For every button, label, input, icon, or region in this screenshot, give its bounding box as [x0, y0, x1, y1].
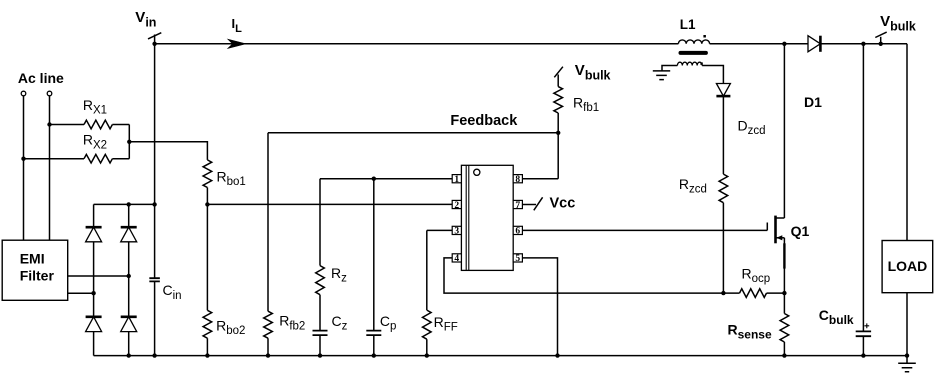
wire Rfb1 top stub — [557, 75, 559, 87]
resistor Rfb1 — [554, 87, 563, 113]
svg-text:LOAD: LOAD — [888, 258, 928, 274]
junction Q1 source at Rocp node — [782, 291, 786, 295]
label Rfb1 — [573, 95, 599, 115]
label Cp — [380, 313, 397, 333]
wire pin 4 to Rocp node — [444, 258, 740, 293]
label Filter — [20, 267, 55, 283]
wire L1 secondary to ground — [662, 66, 677, 71]
resistor Rsense — [780, 314, 789, 343]
pin 5 number — [515, 254, 520, 264]
wire Q1 gate tick — [766, 223, 768, 231]
label Cin — [163, 282, 182, 302]
wire bridge left leg upper — [93, 204, 95, 227]
label Rbo1 — [217, 168, 246, 188]
pin 2 square — [452, 200, 461, 208]
label IL — [232, 16, 243, 35]
junction RFF at ground rail — [425, 353, 429, 357]
pin 8 number — [515, 175, 520, 185]
junction bridge top right leg — [127, 202, 131, 206]
junction Cbulk at ground rail — [861, 353, 865, 357]
wire pin1 to Rz top — [320, 178, 452, 180]
wire L1 secondary to Dzcd — [702, 66, 723, 84]
wire RX2 left lead — [24, 158, 85, 160]
wire Rz top lead — [319, 179, 321, 266]
slash Vbulk tap marker — [554, 67, 563, 78]
wire bridge right leg upper — [128, 204, 130, 227]
wire right column to LOAD — [906, 44, 908, 241]
pin 1 square — [452, 175, 461, 183]
pin 7 square — [513, 200, 522, 208]
pin 3 square — [452, 226, 461, 234]
wire Cp top lead — [373, 179, 375, 331]
label D1 — [804, 94, 822, 110]
terminal Ac line right — [47, 91, 52, 96]
wire Vbulk stub — [880, 37, 882, 44]
inductor L1 label — [680, 17, 696, 32]
Cbulk polarity plus — [864, 323, 869, 328]
junction Vbulk at top rail — [879, 42, 883, 46]
wire Cz bottom lead — [319, 335, 321, 356]
capacitor Cbulk — [856, 331, 871, 336]
svg-text:Ac line: Ac line — [18, 70, 64, 86]
junction Rbo1 bottom node — [205, 202, 209, 206]
svg-text:8: 8 — [515, 175, 520, 185]
junction Rzcd at Rocp wire — [721, 291, 725, 295]
pin 2 number — [454, 201, 459, 211]
wire top rail L1 to D1 — [710, 43, 808, 45]
ground main symbol — [898, 356, 916, 372]
wire RX output to Rbo1 top — [129, 142, 207, 160]
wire Rbo2 bottom lead — [206, 338, 208, 355]
pin 6 number — [515, 227, 520, 237]
junction Cp at pin1 wire — [372, 177, 376, 181]
label Rocp — [742, 265, 771, 285]
wire Cbulk top lead — [862, 44, 864, 332]
label LOAD — [888, 258, 928, 274]
junction EMI upper output at right bridge leg — [127, 274, 131, 278]
wire bridge right leg middle — [128, 242, 130, 317]
Q1 source stub — [777, 237, 785, 239]
resistor Rfb2 — [264, 311, 273, 338]
Q1 source arrow — [776, 235, 782, 240]
junction Feedback at Rfb1 — [556, 131, 560, 135]
node Vcc label — [550, 196, 576, 212]
label Cz — [332, 313, 348, 333]
wire Rfb2 bottom lead — [267, 338, 269, 355]
wire Feedback — [268, 132, 558, 134]
label Rz — [331, 265, 347, 285]
wire RX1-RX2 right vertical — [128, 125, 130, 159]
wire Rfb1 bottom lead — [557, 113, 559, 133]
junction Vin at top rail — [152, 42, 156, 46]
capacitor Cz — [313, 331, 328, 336]
svg-text:L1: L1 — [680, 17, 696, 32]
inductor L1 secondary winding — [677, 62, 702, 65]
capacitor Cin — [149, 278, 160, 281]
diode bridge upper-right — [121, 227, 137, 242]
wire ground rail — [94, 355, 907, 357]
wire top rail D1 to right corner — [820, 43, 907, 45]
junction bridge rail at Vin column — [152, 202, 156, 206]
svg-text:4: 4 — [454, 254, 459, 264]
wire EMI upper output to bridge — [68, 275, 129, 277]
wire Rbo1 node to pin 2 — [207, 203, 452, 205]
slash Vcc marker — [534, 197, 543, 210]
resistor Rzcd — [719, 174, 728, 203]
junction Cz at ground rail — [318, 353, 322, 357]
node Vbulk label — [880, 13, 916, 33]
diode bridge lower-right — [121, 317, 137, 332]
IC left double line — [466, 165, 469, 270]
node Ac line label — [18, 70, 64, 86]
terminal Ac line left — [21, 91, 26, 96]
wire Vin stub — [154, 35, 156, 44]
label Rbo2 — [216, 317, 245, 337]
svg-text:Q1: Q1 — [791, 223, 810, 239]
pin 4 square — [452, 254, 461, 262]
resistor RX1 — [84, 120, 112, 129]
wire pin 5 to ground rail — [522, 258, 557, 356]
junction LOAD at ground rail — [905, 353, 909, 357]
label Feedback — [450, 113, 518, 129]
pin 4 number — [454, 254, 459, 264]
wire Rz to Cz — [319, 295, 321, 331]
junction Cp at ground rail — [372, 353, 376, 357]
junction bridge right leg at ground rail — [127, 353, 131, 357]
junction Rbo2 at ground rail — [205, 353, 209, 357]
wire Rocp to Q1 source — [767, 292, 785, 294]
wire Cp bottom lead — [373, 335, 375, 356]
transistor Q1 channel bar — [774, 216, 777, 244]
op-amp controller U1 body — [461, 165, 513, 270]
wire RX1 right lead — [112, 124, 129, 126]
pin 6 square — [513, 226, 522, 234]
arrow IL current — [228, 39, 246, 48]
junction on right Ac wire at RX1 — [47, 122, 51, 126]
EMI Filter box — [2, 240, 68, 300]
pin 5 square — [513, 254, 522, 262]
svg-text:Feedback: Feedback — [450, 113, 518, 129]
wire Rzcd to Rocp node — [722, 203, 724, 293]
ground at L1 secondary — [653, 71, 670, 80]
inductor L1 primary winding — [678, 40, 709, 44]
wire Rbo1 bottom lead — [206, 188, 208, 205]
svg-text:Vcc: Vcc — [550, 196, 576, 212]
wire pin 6 to Q1 gate — [522, 229, 767, 231]
wire bridge right leg lower — [128, 332, 130, 356]
resistor RFF — [422, 310, 431, 339]
wire Rsense top lead — [783, 293, 785, 313]
wire EMI lower output to bridge — [68, 292, 94, 294]
resistor Rz — [316, 266, 325, 295]
node Vbulk tap label — [575, 62, 611, 82]
label RX2 — [83, 132, 107, 152]
svg-text:5: 5 — [515, 254, 520, 264]
wire RX1 left lead — [50, 124, 85, 126]
svg-text:2: 2 — [454, 201, 459, 211]
wire Cin bottom to ground rail — [154, 281, 156, 355]
L1 secondary polarity dot — [700, 62, 702, 64]
resistor Rocp — [740, 289, 767, 298]
wire Rbo2 top lead — [206, 204, 208, 310]
junction Cin at ground rail — [152, 353, 156, 357]
wire Ac line right down to EMI filter — [49, 96, 51, 240]
wire Dzcd to Rzcd — [722, 96, 724, 174]
junction EMI lower output at left bridge leg — [91, 291, 95, 295]
svg-text:D1: D1 — [804, 94, 822, 110]
svg-text:1: 1 — [454, 175, 459, 185]
wire pin 7 Vcc stub — [522, 204, 536, 206]
label EMI — [20, 250, 45, 266]
wire RFF bottom lead — [426, 339, 428, 355]
label RX1 — [83, 97, 107, 117]
wire Rsense bottom lead — [783, 342, 785, 356]
resistor RX2 — [84, 154, 112, 163]
slash Vin marker — [148, 33, 161, 39]
label Dzcd — [738, 117, 766, 137]
wire bridge top rail — [94, 203, 155, 205]
capacitor Cp — [366, 331, 381, 336]
label Q1 — [791, 223, 810, 239]
LOAD box — [882, 241, 933, 293]
junction Rsense at ground rail — [782, 353, 786, 357]
resistor Rbo2 — [203, 310, 212, 338]
pin 7 number — [515, 201, 520, 211]
wire bridge left leg lower — [93, 332, 95, 356]
wire top rail Vin to L1 — [155, 43, 679, 45]
svg-text:7: 7 — [515, 201, 520, 211]
junction pin5 at ground rail — [555, 353, 559, 357]
Q1 drain stub — [776, 217, 785, 219]
wire Rfb2 top lead — [267, 133, 269, 311]
node Vin label — [135, 9, 156, 29]
IC pin-1 indicator circle — [474, 169, 480, 175]
junction Cbulk at top rail — [861, 42, 865, 46]
wire LOAD to ground rail — [906, 293, 908, 356]
wire Cbulk bottom lead — [862, 336, 864, 355]
pin 3 number — [454, 227, 459, 237]
diode D1 — [808, 36, 820, 52]
junction Rfb2 at ground rail — [266, 353, 270, 357]
diode bridge lower-left — [86, 317, 102, 332]
wire pin3 to RFF top — [427, 229, 452, 231]
slash Vbulk marker — [875, 32, 886, 37]
diode bridge upper-left — [86, 227, 102, 242]
svg-text:3: 3 — [454, 227, 459, 237]
wire RX2 right lead — [112, 158, 129, 160]
wire bridge left leg middle — [93, 242, 95, 317]
wire Q1 drain column — [783, 44, 785, 218]
junction on left Ac wire at RX2 — [21, 157, 25, 161]
resistor Rbo1 — [203, 160, 212, 188]
svg-text:Filter: Filter — [20, 267, 55, 283]
label Cbulk — [819, 307, 854, 327]
wire RFF top lead — [426, 230, 428, 310]
wire Vin column down to Cin — [154, 44, 156, 278]
label Rfb2 — [279, 313, 305, 333]
pin 8 square — [513, 175, 522, 183]
label RFF — [434, 314, 458, 334]
label Rsense — [728, 321, 772, 341]
wire Q1 source column — [783, 238, 785, 293]
junction RX output node — [127, 140, 131, 144]
svg-text:6: 6 — [515, 227, 520, 237]
diode Dzcd — [716, 84, 730, 97]
wire pin 8 to feedback node — [522, 133, 558, 179]
junction Q1 drain at top rail — [782, 42, 786, 46]
label Rzcd — [679, 176, 707, 196]
L1 core bar — [681, 51, 706, 55]
svg-text:EMI: EMI — [20, 250, 45, 266]
L1 primary polarity dot — [703, 35, 706, 38]
Q1 source thick segment — [783, 243, 785, 268]
wire Ac line left down to EMI filter — [23, 96, 25, 240]
pin 1 number — [454, 175, 459, 185]
